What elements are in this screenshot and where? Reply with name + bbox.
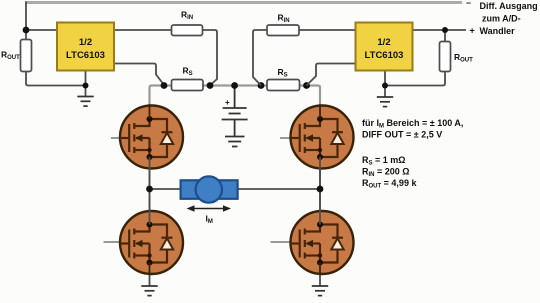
- resistor RS1: [172, 80, 204, 91]
- wire: U2 output to plus node: [413, 29, 467, 31]
- gate stub Q1: [111, 137, 121, 139]
- wire: Rin1 right, down to Rs1 right terminal (kelvin): [203, 30, 218, 86]
- svg-text:LTC6103: LTC6103: [66, 50, 105, 61]
- wire: left vertical from top rail to output node: [25, 2, 27, 31]
- node: U2 ground junction: [382, 83, 388, 89]
- wire: left lower source to ground: [149, 263, 151, 287]
- gate stub Q3: [104, 241, 121, 243]
- wire: top differential output (minus) rail: [25, 1, 462, 4]
- op-amp U1 1/2 LTC6103: [57, 23, 114, 71]
- resistor Rin2: [267, 25, 299, 36]
- svg-text:DIFF OUT = ± 2,5 V: DIFF OUT = ± 2,5 V: [362, 130, 442, 140]
- wire: U1 ground pin: [85, 71, 87, 97]
- transistor Q4 (bottom right): [291, 211, 354, 274]
- wire: right lower source to ground: [319, 263, 321, 287]
- node: Rs1 right: [207, 82, 214, 89]
- op-amp U2 1/2 LTC6103: [356, 23, 413, 71]
- resistor Rout1: [21, 40, 32, 72]
- wire: output node down to Rout1: [25, 30, 27, 40]
- wire: motor right: [237, 188, 320, 190]
- node: U2 output junction: [442, 27, 448, 33]
- svg-text:+: +: [225, 98, 230, 107]
- node: motor right junction: [317, 186, 324, 193]
- resistor RS2: [267, 80, 300, 91]
- wire: U2 +in to Rs2 right terminal (kelvin): [307, 64, 356, 86]
- motor M1: [181, 180, 238, 199]
- wire: Rout2 bottom to U2 ground node: [385, 71, 445, 86]
- node: motor left junction: [146, 186, 153, 193]
- transistor Q1 (top left): [120, 106, 183, 169]
- transistor Q3 (bottom left): [120, 211, 183, 274]
- ground under battery: [225, 137, 245, 147]
- svg-text:–: –: [466, 0, 471, 8]
- wire: motor left: [150, 188, 182, 190]
- wire: Rout2 top: [444, 30, 446, 42]
- ground under U2: [377, 97, 393, 107]
- wire: output node to U1: [26, 29, 57, 31]
- svg-text:1/2: 1/2: [79, 37, 92, 48]
- wire: U2 ground pin: [384, 71, 386, 98]
- node: Rs2 left: [258, 82, 265, 89]
- battery V+: [222, 108, 248, 137]
- svg-text:Wandler: Wandler: [480, 26, 516, 36]
- transistor Q2 (top right): [291, 106, 354, 169]
- wire: U1 +in to Rs1 left terminal (kelvin): [114, 64, 165, 86]
- wire: Rout1 bottom to ground node: [26, 71, 86, 86]
- node: battery junction: [231, 82, 238, 89]
- wire: supply rail with H-bridge top: [150, 86, 321, 105]
- gate stub Q4: [271, 241, 292, 243]
- wire: left bridge center vertical: [149, 104, 151, 225]
- wire: Rin2 to U2: [299, 29, 356, 31]
- wire: Rin2 left, down to Rs2 left terminal (kelvin): [253, 30, 267, 86]
- resistor Rout2: [440, 42, 451, 72]
- current arrow Im: [191, 208, 227, 210]
- svg-text:Diff. Ausgang: Diff. Ausgang: [480, 1, 538, 11]
- resistor Rin1: [172, 25, 203, 36]
- gate stub Q2: [280, 137, 291, 139]
- wire: right bridge center vertical: [319, 104, 321, 225]
- node: U1 output junction: [23, 27, 30, 34]
- node: Rs1 left: [161, 82, 168, 89]
- ground under Q3: [141, 286, 157, 296]
- svg-text:LTC6103: LTC6103: [365, 50, 404, 61]
- svg-text:zum A/D-: zum A/D-: [482, 14, 521, 24]
- wire: U1 output to Rin1: [114, 29, 172, 31]
- svg-text:1/2: 1/2: [377, 37, 390, 48]
- redraw verticals over circles: [149, 105, 151, 119]
- svg-text:+: +: [470, 26, 475, 36]
- node: U1 ground junction: [83, 83, 89, 89]
- node: Rs2 right: [303, 82, 310, 89]
- ground under Q4: [312, 286, 328, 296]
- wire: battery stem: [234, 86, 236, 109]
- svg-text:für IM Bereich = ± 100 A,: für IM Bereich = ± 100 A,: [362, 118, 463, 130]
- ground under U1: [77, 97, 93, 107]
